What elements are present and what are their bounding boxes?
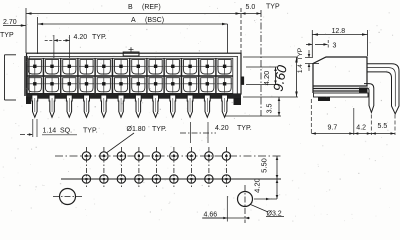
svg-text:A: A	[131, 17, 136, 24]
footprint row 2 centreline	[61, 178, 281, 180]
dimension 9.60 (housing height, rotated)	[270, 57, 297, 97]
cavity and pin contact, row 1 col 12	[216, 58, 233, 75]
lower right-angle pin (row 2, side view)	[364, 84, 374, 113]
svg-text:TYP.: TYP.	[83, 128, 98, 135]
drill hole row 1 col 7 (1.80 dia)	[187, 152, 195, 160]
cavity and pin contact, row 1 col 10	[182, 58, 199, 75]
solder pin 3 (front view)	[66, 95, 72, 117]
solder pin 12 (front view)	[222, 95, 228, 117]
right side latch tab	[241, 77, 245, 85]
solder pin 6 (front view)	[118, 95, 124, 117]
dimension 4.20 (row pitch, rotated)	[262, 67, 277, 85]
drill hole row 2 col 5 (1.80 dia)	[152, 175, 160, 183]
connector housing (front view)	[27, 53, 242, 97]
cavity and pin contact, row 1 col 7	[130, 58, 147, 75]
dimension 4.20 TYP (pin pitch, top)	[45, 34, 107, 58]
dimension A (BSC) pin span	[38, 17, 228, 54]
drill hole row 2 col 6 (1.80 dia)	[170, 175, 178, 183]
svg-text:1.14: 1.14	[43, 128, 57, 135]
drill hole row 1 col 5 (1.80 dia)	[152, 152, 160, 160]
side view lower-right pin exit shadow	[359, 88, 368, 93]
svg-text:4.20: 4.20	[74, 34, 88, 41]
hole column 4 centreline	[138, 147, 140, 189]
cavity and pin contact, row 2 col 10	[182, 76, 199, 93]
cavity and pin contact, row 1 col 11	[199, 58, 216, 75]
dimension 4.66 (last hole to mounting hole)	[202, 196, 250, 222]
hole column 5 centreline	[155, 147, 157, 189]
svg-text:9.60: 9.60	[270, 63, 289, 92]
dimension 12.8 (overall depth, side view)	[312, 28, 367, 57]
housing base band	[27, 94, 242, 99]
dimension 3.5 (pin protrusion, rotated)	[266, 97, 280, 116]
svg-text:4.20: 4.20	[215, 125, 229, 132]
cavity and pin contact, row 1 col 1	[27, 58, 44, 75]
dimension 3 (face to latch, side view)	[306, 40, 337, 50]
side view housing body	[313, 57, 368, 97]
hole column 1 centreline	[85, 147, 87, 189]
solder pin 7 (front view)	[135, 95, 141, 117]
cavity and pin contact, row 2 col 7	[130, 76, 147, 93]
cavity and pin contact, row 2 col 5	[96, 76, 113, 93]
cavity and pin contact, row 2 col 6	[113, 76, 130, 93]
vertical centreline of mounting hole (front view)	[260, 10, 262, 116]
dimension 5.0 TYP (edge to mounting hole centre)	[241, 4, 280, 54]
svg-text:9.7: 9.7	[328, 125, 338, 132]
cavity and pin contact, row 1 col 3	[61, 58, 78, 75]
svg-text:TYP: TYP	[0, 32, 14, 39]
housing top polarization rib	[123, 47, 139, 56]
svg-text:4.66: 4.66	[204, 212, 218, 219]
drill hole row 1 col 8 (1.80 dia)	[205, 152, 213, 160]
drill hole row 1 col 1 (1.80 dia)	[82, 152, 90, 160]
left datum bracket	[5, 55, 17, 100]
footprint row 1 centreline	[55, 155, 281, 157]
label dia 1.80 TYP with leader to hole	[107, 126, 167, 153]
svg-text:(REF): (REF)	[142, 4, 161, 11]
drill hole row 1 col 4 (1.80 dia)	[135, 152, 143, 160]
svg-text:4.2: 4.2	[356, 125, 366, 132]
svg-text:TYP.: TYP.	[152, 126, 167, 133]
drill hole row 2 col 8 (1.80 dia)	[205, 175, 213, 183]
cavity and pin contact, row 1 col 9	[165, 58, 182, 75]
svg-text:TYP.: TYP.	[92, 34, 107, 41]
cavity and pin contact, row 1 col 8	[147, 58, 164, 75]
svg-text:Ø1.80: Ø1.80	[127, 126, 146, 133]
cavity and pin contact, row 2 col 9	[165, 76, 182, 93]
cavity and pin contact, row 1 col 5	[96, 58, 113, 75]
drill hole row 2 col 3 (1.80 dia)	[117, 175, 125, 183]
cavity and pin contact, row 2 col 12	[216, 76, 233, 93]
svg-text:3: 3	[333, 43, 337, 50]
hole column 3 centreline	[120, 147, 122, 189]
drill hole row 1 col 6 (1.80 dia)	[170, 152, 178, 160]
dimension 4.20 TYP (hole pitch, lower)	[180, 122, 252, 143]
svg-text:(BSC): (BSC)	[145, 17, 164, 24]
dimension 1.14 SQ TYP (pin cross-section)	[20, 119, 98, 137]
hole column 2 centreline	[103, 147, 105, 189]
solder pin 10 (front view)	[187, 95, 193, 117]
drill hole row 2 col 2 (1.80 dia)	[100, 175, 108, 183]
solder pin 11 (front view)	[204, 95, 210, 117]
svg-text:12.8: 12.8	[332, 28, 346, 35]
drill hole row 1 col 9 (1.80 dia)	[222, 152, 230, 160]
solder pin 2 (front view)	[49, 95, 55, 117]
right mounting peg (front view)	[234, 98, 242, 105]
svg-text:5.50: 5.50	[260, 158, 269, 173]
mounting hole right (3.2 dia)	[238, 185, 278, 223]
drill hole row 1 col 2 (1.80 dia)	[100, 152, 108, 160]
drill hole row 2 col 1 (1.80 dia)	[82, 175, 90, 183]
solder pin 9 (front view)	[170, 95, 176, 117]
cavity and pin contact, row 1 col 4	[78, 58, 95, 75]
cavity and pin contact, row 2 col 11	[199, 76, 216, 93]
drill hole row 2 col 9 (1.80 dia)	[222, 175, 230, 183]
svg-text:TYP.: TYP.	[237, 125, 252, 132]
side view mounting peg	[318, 97, 330, 101]
cavity and pin contact, row 1 col 2	[44, 58, 61, 75]
dimension 1.4 TYP (front lip, rotated, side view)	[297, 48, 313, 73]
svg-text:1.4 TYP: 1.4 TYP	[297, 48, 304, 73]
solder pin 1 (front view)	[32, 95, 38, 117]
upper right-angle pin (row 1, side view)	[367, 64, 399, 114]
dimension 2.70 TYP (edge to first pin)	[0, 19, 26, 39]
solder pin 8 (front view)	[153, 95, 159, 117]
svg-text:4.20: 4.20	[253, 178, 262, 193]
drill hole row 2 col 7 (1.80 dia)	[187, 175, 195, 183]
svg-text:2.70: 2.70	[3, 19, 17, 26]
svg-text:5.0: 5.0	[246, 4, 256, 11]
hole column 9 centreline	[225, 147, 227, 189]
cavity and pin contact, row 2 col 2	[44, 76, 61, 93]
drill hole row 2 col 4 (1.80 dia)	[135, 175, 143, 183]
hole column 8 centreline	[208, 147, 210, 189]
svg-text:B: B	[128, 4, 133, 11]
svg-text:SQ.: SQ.	[60, 128, 72, 135]
dimension 5.50 (row1 to row2, rotated)	[260, 156, 279, 179]
cavity and pin contact, row 2 col 8	[147, 76, 164, 93]
dark left wall of housing	[24, 56, 28, 96]
dimension B (REF) overall width	[26, 4, 241, 53]
solder pin 4 (front view)	[84, 95, 90, 117]
bottom dimensions 9.7 / 4.2 / 5.5 (side view)	[311, 99, 395, 135]
left mounting peg (front view)	[26, 97, 31, 104]
drill hole row 1 col 3 (1.80 dia)	[117, 152, 125, 160]
svg-text:5.5: 5.5	[378, 123, 388, 130]
mounting hole left (3.2 dia)	[53, 189, 83, 205]
hole column 6 centreline	[173, 147, 175, 189]
cavity and pin contact, row 1 col 6	[113, 58, 130, 75]
solder pin 5 (front view)	[101, 95, 107, 117]
svg-text:4.20: 4.20	[262, 71, 271, 86]
cavity and pin contact, row 2 col 4	[78, 76, 95, 93]
svg-text:TYP: TYP	[266, 4, 280, 11]
dimension 4.20 (row2 to mounting hole, rotated)	[253, 178, 279, 199]
extension lines right of front view	[225, 57, 298, 116]
hole column 7 centreline	[190, 147, 192, 189]
label dia 3.2 with leader	[251, 205, 285, 218]
svg-text:3.5: 3.5	[266, 104, 273, 114]
cavity and pin contact, row 2 col 1	[27, 76, 44, 93]
cavity and pin contact, row 2 col 3	[61, 76, 78, 93]
